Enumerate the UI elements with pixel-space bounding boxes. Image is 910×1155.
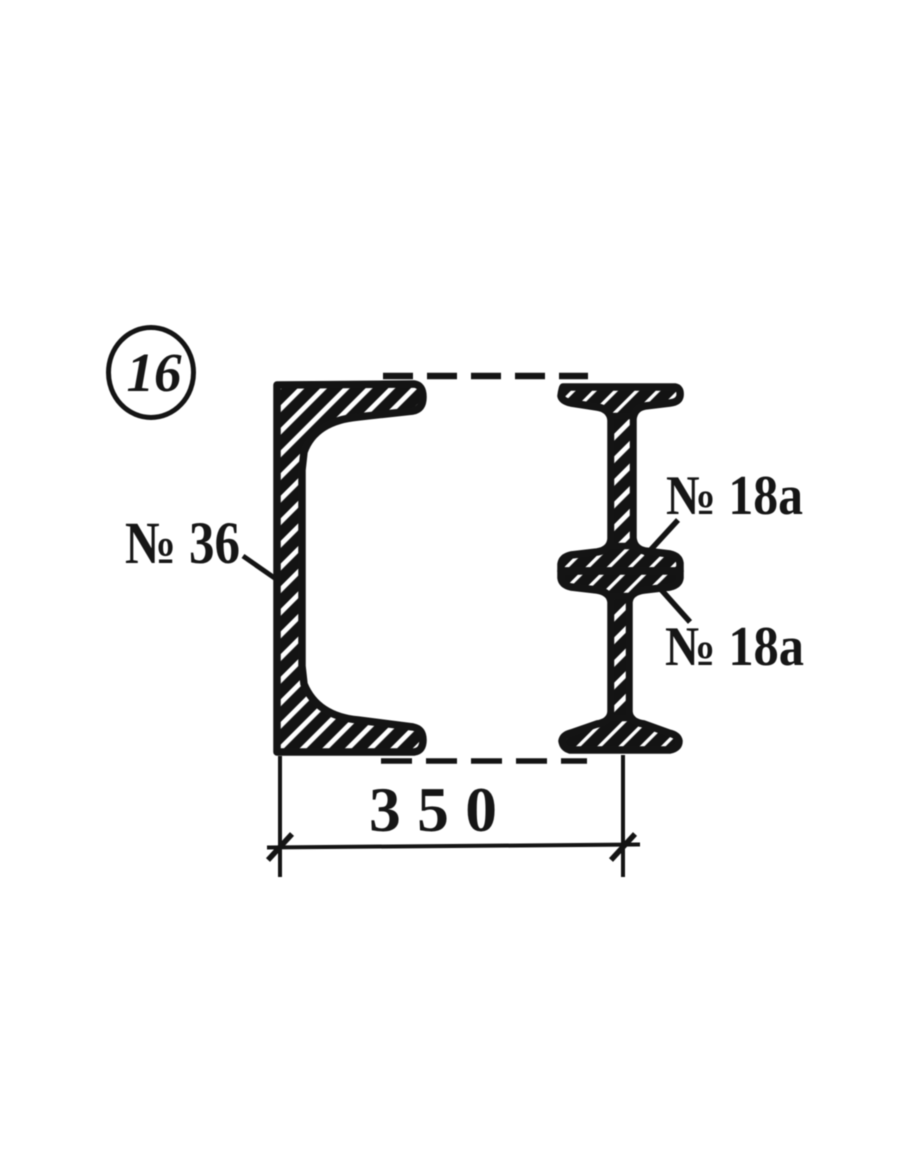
lower I-beam 18a xyxy=(561,571,680,750)
dimension extension line left xyxy=(278,756,282,877)
tick left xyxy=(268,834,292,860)
top dashed line xyxy=(383,373,588,380)
leader to middle flange top xyxy=(645,520,678,556)
dimension extension line right xyxy=(621,755,625,877)
lower I-beam web hatch xyxy=(611,596,629,718)
dimension line xyxy=(267,845,640,848)
channel C36 section xyxy=(277,384,423,752)
leader to channel xyxy=(243,556,276,579)
svg-text:350: 350 xyxy=(369,774,497,845)
circle marker 16 xyxy=(109,328,194,418)
svg-text:№ 18a: № 18a xyxy=(665,616,804,678)
svg-text:№ 36: № 36 xyxy=(125,510,240,576)
tick right xyxy=(611,834,635,860)
upper I-beam 18a xyxy=(561,387,680,571)
upper I-beam web hatch xyxy=(611,416,633,546)
bottom dashed line xyxy=(381,758,587,764)
svg-text:16: 16 xyxy=(127,342,183,403)
svg-text:№ 18a: № 18a xyxy=(666,465,803,527)
leader to middle flange bottom xyxy=(657,585,690,622)
